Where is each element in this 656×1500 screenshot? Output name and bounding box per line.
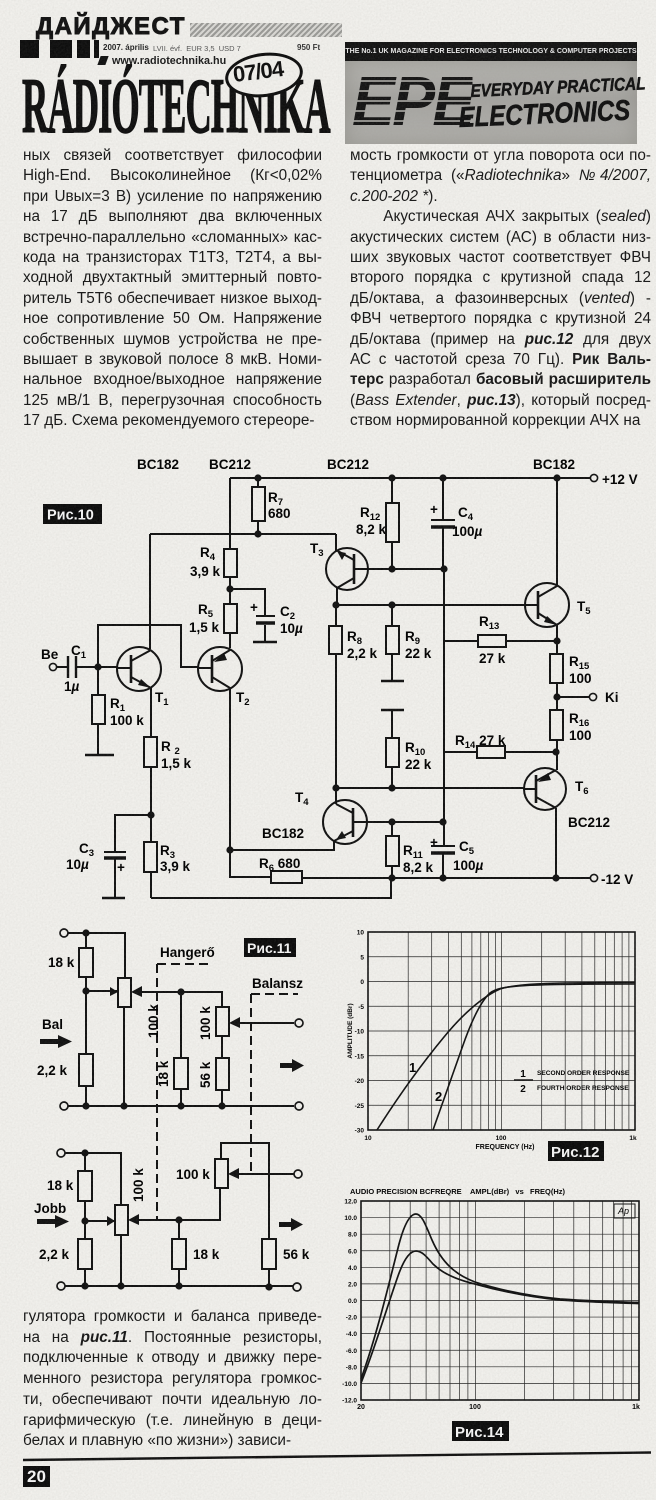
bottom wire to -12V [151,878,391,898]
resistor R5 [224,604,237,633]
grid Рис.14 [361,1201,639,1400]
wire T3 collector [336,588,338,605]
node R10-bottom [389,785,394,790]
-12V terminal [590,874,597,881]
resistor R4 [224,549,237,577]
potentiometer 100k Jobb [115,1205,128,1235]
wire T2 collector down [229,688,231,850]
dashed Balansz link [251,993,298,995]
capacitor C1 [67,656,69,678]
wire T4 collector [335,788,337,804]
node R7-bottom [255,531,260,536]
grid Рис.12 [368,932,635,1130]
resistor R13 [444,640,478,642]
label Рис.10 [43,504,102,524]
node R4R5 [227,586,232,591]
node rail-R7 [255,475,260,480]
potentiometer 100k Balansz jobb [215,1159,228,1188]
wire T3 emitter up [335,534,337,551]
resistor 2,2k Bal [85,991,87,1054]
transistor T6 [524,768,566,810]
wire T3 base node line [392,568,444,570]
ground [85,754,114,756]
wire R4R5 column [229,478,231,549]
capacitor C4 [442,478,444,519]
wire T5 base line [336,604,525,606]
node R9-top [389,602,394,607]
wire down to R6 [229,850,231,877]
wire T5 emitter [556,625,558,654]
node T4 collector-R8 [333,785,338,790]
wire T4 base line [392,821,443,823]
curve lower [361,1251,639,1383]
wire feedback to T2 base [98,625,198,667]
resistor 56k Jobb [262,1239,276,1269]
resistor R2 [144,737,157,767]
transistor T2 [198,647,242,691]
arrow out jobb [279,1218,303,1231]
Jobb channel top rail [57,1149,65,1157]
wire to pot left [86,990,118,992]
resistor 18k mid [180,992,182,1058]
node R11-bottom rail [389,875,394,880]
capacitor C5 [431,845,455,847]
wire to C2 [230,589,265,616]
transistor T3 [326,548,368,590]
wire T2C-T4E [230,841,334,850]
+12V rail [230,477,590,479]
y labels Рис.12 [355,930,365,1135]
resistor R12 [391,478,393,503]
node T3 collector-R8 [333,602,338,607]
capacitor C2 [256,615,275,617]
+12V terminal [590,474,597,481]
resistor R9 [386,626,399,654]
resistor R11 [386,836,399,866]
resistor R14 [444,751,477,753]
resistor R15 [550,654,563,683]
curve 1 second order [377,983,635,1131]
transistor T1 [117,647,161,691]
node rail-R12 [389,475,394,480]
resistor 18k Bal left [85,933,87,948]
wire T1 collector [149,534,151,649]
Ap box [614,1204,635,1218]
resistor R16 [550,710,563,740]
wire T1 emitter to R2 [150,688,152,737]
node line below R7 [150,533,336,535]
resistor 18k Jobb left [84,1153,86,1171]
arrow Bal [40,1035,72,1048]
node R13-T5 emitter [554,638,559,643]
input terminal Be [49,663,56,670]
arrow out top [280,1059,304,1072]
transistor T5 [525,583,569,627]
dashed Hangero link [157,963,213,965]
wire to Jobb pot [85,1220,116,1222]
node C5-bottom rail [440,875,445,880]
wire T6 collector [555,808,557,878]
capacitor C3 [104,851,126,853]
resistor R8 [329,626,342,654]
resistor R7 [257,478,259,487]
resistor 2,2k Jobb [84,1221,86,1239]
resistor 18k Jobb mid [178,1220,180,1239]
transistor T4 [323,800,367,844]
node R12-bottom [389,566,394,571]
wire mid vertical [443,569,445,641]
capacitor between R9 and R10 [381,680,404,683]
resistor R1 [97,667,99,695]
node T2 collector / T4 emitter [227,847,232,852]
resistor R6 [271,871,302,883]
wire T6 base line [336,787,524,789]
label Рис.11 [244,938,296,957]
-12V rail [229,876,271,878]
wire to C3 [115,815,151,852]
label Рис.12 [548,1141,604,1161]
Bal channel top rail [60,929,68,937]
node C5-top [440,819,445,824]
arrow Jobb [37,1215,69,1228]
node T6-rail [553,875,558,880]
node R11-top [389,819,394,824]
Jobb bottom rail [57,1282,65,1290]
node input [95,664,100,669]
wire T5 collector [556,478,558,586]
potentiometer 100k Balansz top [216,1007,229,1036]
Bal bottom rail [60,1102,68,1110]
curve 2 fourth order [433,984,635,1130]
y labels Рис.14 [342,1199,357,1405]
resistor 56k top [221,1036,223,1058]
node R14-R16 [553,749,558,754]
node Ki [554,694,559,699]
node R2R3 [148,812,153,817]
node rail-T5 [554,475,559,480]
curve upper [361,1214,639,1379]
resistor R3 [144,842,157,872]
resistor R10 [386,738,399,767]
label Рис.14 [452,1421,509,1441]
node C4-bottom [441,566,446,571]
node rail-C4 [440,475,445,480]
potentiometer 100k Bal [118,978,131,1007]
